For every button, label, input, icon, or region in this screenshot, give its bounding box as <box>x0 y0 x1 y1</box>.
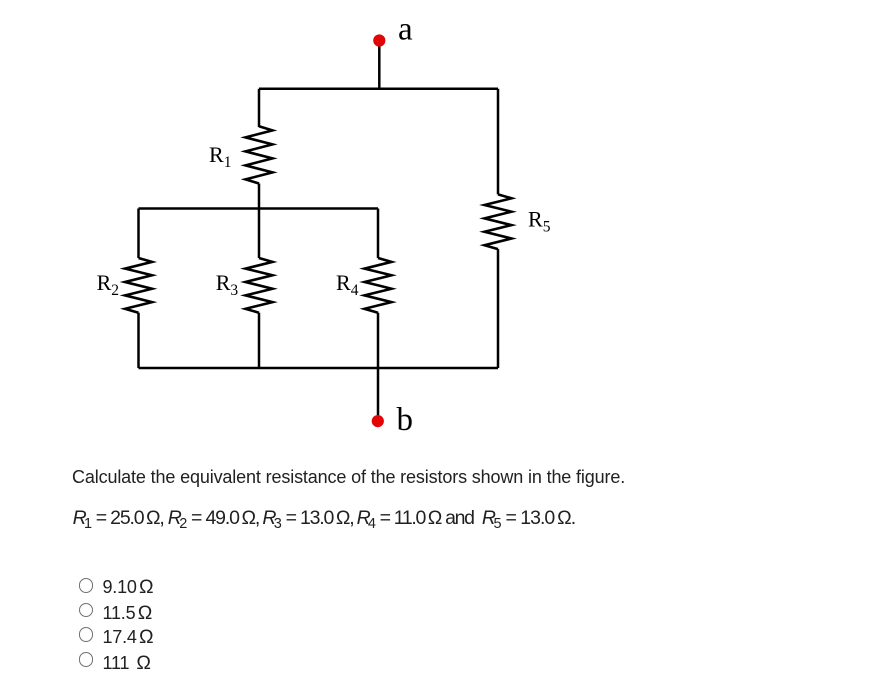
svg-text:R5: R5 <box>528 207 551 236</box>
svg-text:a: a <box>398 12 413 48</box>
svg-text:R4: R4 <box>336 270 359 299</box>
svg-text:b: b <box>397 402 414 438</box>
svg-text:R1: R1 <box>209 142 231 171</box>
svg-text:R2: R2 <box>97 270 119 299</box>
svg-text:R3: R3 <box>216 270 239 299</box>
